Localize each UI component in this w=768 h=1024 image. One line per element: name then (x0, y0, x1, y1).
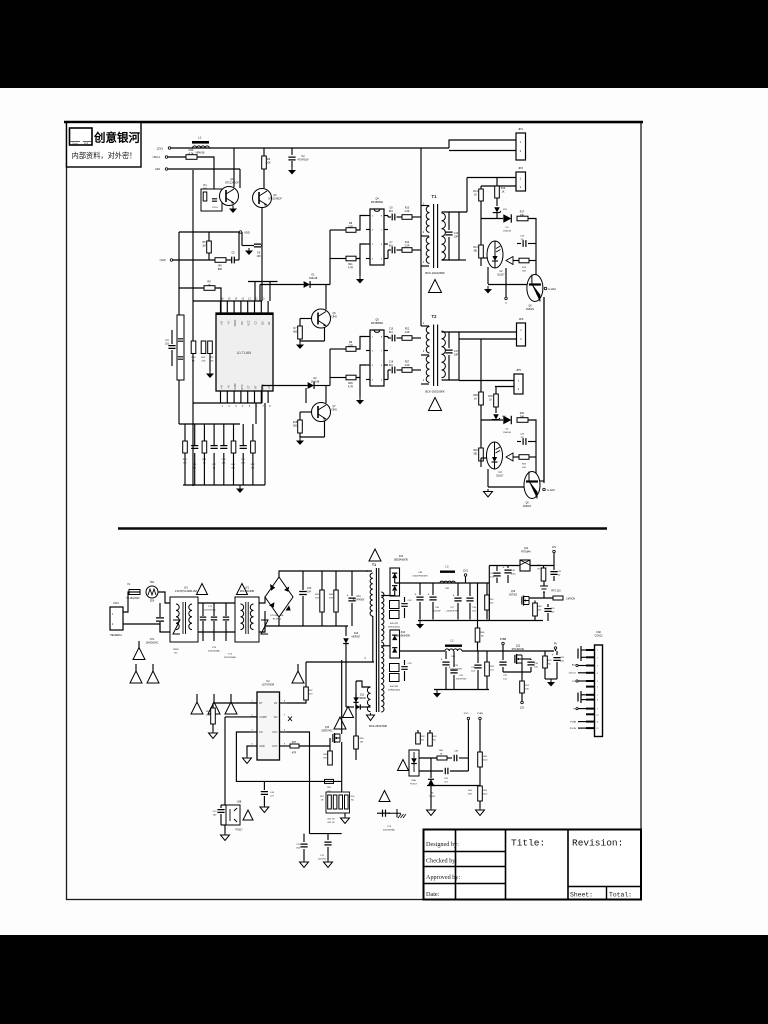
svg-text:R22: R22 (405, 329, 410, 331)
svg-text:C4 1U: C4 1U (212, 207, 219, 209)
ground C9 (248, 248, 250, 251)
svg-text:2.2R: 2.2R (405, 365, 410, 367)
svg-text:NC: NC (433, 740, 437, 742)
svg-text:D11: D11 (360, 695, 365, 697)
resistor R26 4.7R (346, 375, 356, 380)
wire rail1 (395, 582, 490, 584)
resistor R16 1K (496, 178, 498, 187)
wire T2 secondary top (442, 331, 517, 333)
svg-text:R14: R14 (473, 190, 478, 193)
resistor R50 2.2 (325, 779, 334, 783)
regulator Q14 RT9164A (520, 560, 530, 571)
svg-text:RT9164A: RT9164A (521, 551, 531, 554)
op-amp U2 LD7576GR (257, 692, 280, 760)
svg-text:10K: 10K (231, 468, 235, 470)
mosfet Q10 2N7002 (523, 596, 525, 606)
svg-text:R26: R26 (348, 382, 353, 385)
wire D13 in (381, 645, 390, 647)
svg-text:PR06M: PR06M (358, 698, 366, 700)
svg-text:U3A: U3A (411, 779, 416, 782)
zener ZD1 (496, 198, 498, 206)
resistor R46 NC (477, 583, 479, 628)
connector CN2 CON12 (595, 645, 603, 737)
svg-text:RT0 103: RT0 103 (551, 590, 561, 593)
capacitor C32 470UF/16V (453, 651, 455, 667)
svg-text:(61)2: (61)2 (483, 760, 489, 762)
svg-text:5D9: 5D9 (150, 601, 155, 603)
svg-text:EL817: EL817 (497, 475, 505, 478)
capacitor C40 1000UF/25V (432, 583, 434, 595)
wire ADJ (168, 168, 240, 170)
svg-text:1N4148: 1N4148 (309, 277, 318, 280)
svg-text:47UF/16V: 47UF/16V (297, 159, 309, 162)
capacitor C29 (556, 651, 558, 655)
optocoupler U4 EL817 (487, 442, 503, 469)
svg-text:C20: C20 (307, 588, 312, 590)
wedge phototransistor T2 (506, 453, 513, 461)
resistor R5 1M (208, 232, 210, 241)
diode D4 (503, 416, 511, 424)
svg-text:BCK-19G1090K: BCK-19G1090K (425, 271, 444, 275)
wire aux down (345, 662, 347, 707)
wire bus3 (434, 689, 489, 691)
svg-text:+: + (453, 594, 455, 598)
section divider line (118, 527, 607, 530)
wire Q5 input pins (330, 348, 346, 350)
resistor R30 4.7K (186, 155, 197, 160)
svg-text:Q13: Q13 (325, 727, 330, 729)
capacitor C20 (302, 571, 304, 590)
svg-text:1000UF/25V(P): 1000UF/25V(P) (412, 576, 427, 578)
svg-text:PSON: PSON (570, 728, 577, 730)
wire Q6a collector (325, 285, 327, 310)
svg-text:内部资料，对外密！: 内部资料，对外密！ (72, 151, 137, 160)
capacitor C49 100UF (507, 566, 509, 569)
svg-text:E2: E2 (260, 321, 264, 325)
svg-text:62K: 62K (468, 794, 472, 796)
svg-text:+1000UF/10V: +1000UF/10V (446, 611, 459, 613)
node VDD (239, 231, 242, 234)
ground under Q4 (359, 276, 361, 279)
svg-text:12V: 12V (520, 707, 525, 710)
resistor R47 NC (543, 566, 545, 569)
resistor R19 13K (184, 424, 186, 441)
zener ZD2 (495, 407, 497, 413)
wire Q4 lower output (397, 249, 403, 251)
svg-text:1000UF: 1000UF (433, 611, 441, 613)
wire Q12 loop (503, 671, 531, 673)
capacitor C76 220 (547, 604, 549, 607)
svg-text:C16: C16 (389, 362, 394, 364)
wedge phototransistor T1 (506, 257, 513, 265)
wire RC row bottom bus (183, 484, 265, 486)
warning triangle U3B (243, 810, 253, 820)
svg-text:OUT: OUT (272, 744, 278, 748)
capacitor C46 1U (553, 566, 555, 571)
ground under C2 (291, 167, 293, 170)
svg-text:51K: 51K (202, 361, 206, 363)
svg-text:10R: 10R (206, 715, 210, 717)
svg-text:R47: R47 (292, 741, 297, 744)
snubber R42 R43 (390, 601, 400, 609)
transistor Q7 (312, 403, 331, 422)
varistor Z2 (261, 620, 268, 634)
svg-text:1K: 1K (502, 191, 505, 194)
svg-text:HEADER-2: HEADER-2 (110, 634, 122, 637)
svg-text:PC817: PC817 (410, 784, 417, 786)
node 12V1 fb (467, 717, 470, 720)
resistor R13 681 (480, 219, 482, 246)
svg-text:T1: T1 (372, 563, 376, 567)
capacitor C27 1000UF/10V (457, 583, 459, 596)
optocoupler U3A PC817 (409, 750, 419, 776)
shunt U6 TL431 (430, 758, 432, 778)
svg-text:R18: R18 (293, 422, 298, 424)
svg-text:R52 1R: R52 1R (328, 819, 335, 821)
svg-text:COMP: COMP (233, 383, 237, 391)
svg-text:FDS8958A: FDS8958A (371, 322, 384, 325)
wire Q1 collector (233, 148, 235, 187)
resistor R62 (479, 720, 481, 752)
wire COMP feedback drop (224, 717, 226, 805)
svg-text:1N4148: 1N4148 (311, 381, 320, 384)
ground under Q1 (232, 206, 234, 209)
resistor R31 24K (517, 418, 528, 423)
wire LF2 out (259, 583, 279, 603)
resistor R30b 1K (495, 387, 497, 395)
svg-text:C945: C945 (331, 410, 337, 412)
resistor R12 2.2R (402, 248, 412, 253)
ground C12b (327, 860, 329, 862)
transistor Q5 FDS8958A (370, 330, 384, 386)
svg-text:ADJ: ADJ (572, 663, 576, 666)
svg-text:4.7R: 4.7R (348, 267, 353, 270)
svg-text:+: + (347, 594, 349, 598)
svg-text:222/250VAC: 222/250VAC (383, 829, 396, 832)
svg-text:T1: T1 (432, 194, 438, 199)
svg-text:1K: 1K (207, 284, 210, 287)
wire left bus (192, 170, 194, 486)
svg-text:JP4: JP4 (519, 317, 524, 321)
capacitor C21 47UF/450V (351, 571, 353, 596)
wire Q7 collector (325, 386, 327, 404)
svg-text:2.2R: 2.2R (405, 332, 410, 334)
wire 1LP (173, 259, 215, 261)
connector CN1 (110, 607, 123, 630)
capacitor C34 1000UF/10V (445, 651, 447, 659)
svg-text:U3B: U3B (237, 802, 242, 804)
svg-text:12V: 12V (552, 546, 557, 549)
svg-text:13K: 13K (183, 463, 187, 465)
svg-text:ZNR1: ZNR1 (173, 649, 179, 651)
svg-text:Date:: Date: (426, 891, 440, 898)
svg-text:1N4148: 1N4148 (503, 231, 511, 233)
mosfet Q12 STN4NF06L (516, 654, 518, 664)
wire VCC loop (287, 732, 310, 746)
svg-text:NC: NC (192, 361, 196, 363)
svg-text:Revision:: Revision: (572, 838, 623, 849)
wire right drop 2 (543, 297, 545, 481)
svg-text:DTC: DTC (240, 384, 244, 389)
wire center bus (420, 148, 422, 326)
resistor R10a 1K (204, 286, 215, 291)
node 12V2 term (521, 701, 524, 704)
U1 bottom pin stubs (220, 391, 222, 403)
svg-text:CS: CS (259, 730, 263, 734)
svg-text:24K: 24K (520, 416, 525, 419)
wire bottom left bus (265, 625, 348, 627)
svg-text:LD7576GR: LD7576GR (262, 684, 275, 687)
capacitor CY5 222/250VAC (377, 812, 390, 814)
capacitor C45 94 (419, 770, 443, 772)
resistor R59 NC (429, 730, 431, 733)
resistor R3 10K (263, 148, 265, 156)
svg-text:+: + (449, 666, 451, 670)
U1 top pin stubs (220, 301, 222, 313)
svg-text:VCC: VCC (272, 730, 278, 734)
svg-text:Title:: Title: (511, 838, 545, 849)
capacitor C44 271 (263, 781, 265, 790)
transistor Q1 (220, 187, 239, 206)
optocoupler U3B PC817 (226, 805, 240, 825)
resistor R10 2.2R (402, 215, 412, 220)
svg-text:Designed by:: Designed by: (426, 841, 459, 848)
svg-text:BCK-26107908: BCK-26107908 (369, 724, 387, 728)
svg-text:L1: L1 (198, 136, 202, 140)
diode D10 HER107 (345, 626, 347, 636)
capacitor C5 (232, 257, 235, 264)
wire reg top (489, 565, 520, 567)
varistor ZNR1 (173, 620, 180, 634)
capacitor C33 100 (530, 659, 532, 660)
warning triangle CY5 (379, 791, 390, 802)
capacitor C43 (404, 660, 406, 665)
resistor R45 222 (486, 583, 488, 595)
svg-text:1M: 1M (202, 245, 205, 248)
svg-text:RT: RT (254, 385, 258, 389)
svg-text:10P: 10P (454, 236, 459, 239)
resistor R27 2.2R (402, 368, 412, 373)
svg-text:R53 1R: R53 1R (328, 822, 335, 824)
node 12V1 out (464, 574, 467, 577)
op-amp U1 TL494 (216, 313, 273, 391)
svg-text:SBD540(60F): SBD540(60F) (394, 560, 408, 562)
capacitor C39 104 (496, 566, 498, 572)
svg-text:10K: 10K (538, 610, 542, 612)
resistor R14 1K (480, 186, 482, 189)
svg-text:2N7002: 2N7002 (509, 595, 518, 597)
earth CY5 (388, 809, 401, 818)
ground R63 (479, 808, 481, 810)
svg-text:BCK-19G1090K: BCK-19G1090K (425, 390, 444, 394)
capacitor C9 103 (242, 245, 254, 247)
svg-text:96K: 96K (218, 268, 223, 271)
svg-text:1K: 1K (489, 399, 492, 402)
resistor R18 682 (298, 420, 303, 433)
capacitor C3 103 (168, 346, 175, 349)
wire T1 secondary bottom (442, 259, 460, 261)
wire D12 in (381, 595, 395, 597)
svg-text:+: + (552, 653, 554, 657)
wire R30 to Q1 (197, 157, 214, 189)
capacitor C10 (388, 337, 391, 339)
wire Q13 drain (341, 660, 343, 734)
svg-text:R31: R31 (520, 412, 525, 415)
diode D11 PR06M (355, 704, 360, 709)
node FVBB fb (479, 717, 482, 720)
svg-text:CX1: CX1 (150, 639, 155, 641)
svg-text:+: + (428, 593, 430, 597)
wire Q5 lower output (397, 369, 403, 371)
connector JP1 (516, 133, 526, 160)
svg-text:222/1KV: 222/1KV (318, 859, 327, 861)
logo mark (70, 128, 93, 145)
bias network box U3 (201, 189, 222, 211)
resistor R63 (479, 767, 481, 786)
ground T1 aux (370, 713, 372, 715)
svg-text:D10: D10 (354, 633, 359, 635)
diode D1 1N4148 (260, 284, 301, 286)
svg-text:222/250VAC: 222/250VAC (224, 656, 237, 659)
resistor R60 4K (419, 757, 437, 759)
svg-text:1K: 1K (474, 194, 477, 197)
svg-text:+: + (441, 658, 443, 662)
wire Q4 gate join (356, 216, 366, 231)
resistor R17 24K (517, 216, 528, 221)
svg-text:PC817: PC817 (235, 830, 243, 832)
ground sense (344, 813, 346, 816)
wire Q2 emitter column (261, 232, 263, 301)
svg-text:+VI: +VI (220, 385, 224, 389)
ground C29 (545, 678, 557, 680)
wire Q5 gate join (356, 337, 366, 350)
svg-text:JP2: JP2 (518, 166, 523, 170)
wire LF1-LF2 (198, 602, 235, 604)
svg-text:E1: E1 (267, 321, 271, 325)
svg-text:VDD: VDD (244, 231, 250, 235)
svg-text:SSR2740C: SSR2740C (321, 731, 333, 733)
transistor Q2 (253, 189, 272, 208)
svg-text:10K: 10K (203, 189, 208, 191)
svg-text:12V1: 12V1 (156, 147, 163, 151)
wire Q10 drain (529, 597, 553, 599)
capacitor C12 1N (213, 424, 215, 441)
capacitor C8 61U (388, 216, 391, 218)
svg-text:EL817: EL817 (498, 274, 506, 277)
resistor R9 10R (346, 347, 356, 352)
svg-text:GND: GND (259, 744, 265, 748)
ground R56 (212, 731, 214, 733)
capacitor C30 104 (469, 583, 471, 596)
wire opto T1 (480, 258, 482, 266)
warning triangle LF2 (237, 584, 248, 595)
resistor R29 681 (480, 420, 482, 448)
wire pin comb (248, 281, 278, 283)
svg-text:10P: 10P (454, 354, 459, 357)
svg-text:47R: 47R (292, 752, 297, 755)
capacitor CX2 224 (213, 603, 215, 616)
svg-text:NC: NC (537, 569, 541, 571)
inductor L1 (192, 141, 209, 144)
capacitor C11 1N (194, 424, 196, 441)
svg-text:U5A-1: U5A-1 (153, 155, 161, 159)
CN2 net flags (578, 646, 581, 661)
svg-text:R43 (61)30X: R43 (61)30X (388, 627, 400, 629)
wire zener row 2 (481, 419, 503, 421)
wire Q7 emitter (324, 421, 326, 437)
ground TL431 (430, 808, 432, 810)
resistor R13a (208, 341, 213, 354)
svg-text:FVBB: FVBB (570, 722, 576, 724)
wire CS loop (236, 732, 309, 781)
wire driver column 2b (329, 378, 331, 386)
svg-text:NC: NC (274, 715, 278, 719)
svg-text:10R: 10R (348, 345, 353, 348)
svg-text:ADJ: ADJ (155, 167, 161, 171)
svg-text:R17: R17 (520, 211, 525, 214)
capacitor C48 (447, 757, 452, 759)
svg-text:222/250VAC: 222/250VAC (204, 609, 217, 612)
ground main (239, 485, 241, 489)
capacitor C15 103 (242, 424, 244, 441)
capacitor C35 104 (477, 651, 479, 663)
capacitor C14 10P (448, 212, 450, 230)
wire Q7 base (300, 411, 312, 413)
svg-text:104/250VAC: 104/250VAC (146, 642, 159, 645)
diode D12 SBD540 (390, 568, 400, 596)
capacitor C38 1000UF/25V (419, 583, 421, 595)
svg-text:R30: R30 (189, 148, 194, 152)
resistor R58 (417, 730, 419, 733)
svg-text:61U: 61U (389, 211, 394, 213)
resistor R40 (335, 571, 337, 590)
connector JP5 (514, 374, 523, 394)
svg-text:13K: 13K (251, 468, 255, 470)
svg-text:R27: R27 (405, 362, 410, 364)
svg-text:FVBB: FVBB (477, 713, 483, 715)
svg-text:12V1: 12V1 (463, 570, 469, 573)
wire JP2 feeds (467, 177, 516, 179)
ground U3B (224, 833, 226, 835)
svg-text:R30: R30 (488, 395, 493, 398)
svg-text:2.2R: 2.2R (405, 211, 410, 213)
wire driver column 2 (329, 349, 331, 378)
wire bus2 (418, 620, 543, 622)
wire U1 bottom bus (179, 423, 240, 425)
resistor R22b 2.2R (402, 336, 412, 341)
node FVBB term (502, 642, 505, 645)
svg-text:NC: NC (174, 653, 178, 655)
svg-text:10K: 10K (522, 467, 526, 469)
warning triangle above T1 (369, 549, 381, 561)
wire reg out (530, 565, 554, 567)
diode D13 SBD340 (390, 630, 400, 658)
inductor L2 (445, 645, 462, 647)
svg-text:CN1: CN1 (113, 601, 119, 605)
wire U1 top bus (193, 300, 262, 302)
transistor Q4 FDS8958A (370, 209, 384, 265)
node 1L terminal (505, 268, 507, 297)
wire Q2 emitter down (261, 208, 263, 232)
svg-text:+: + (415, 593, 417, 597)
capacitor C7 (388, 249, 391, 251)
wire opto T2 (480, 458, 482, 467)
mosfet Q13 SSR2N40C (334, 733, 336, 743)
connector JP4 (517, 323, 526, 346)
svg-text:JP5: JP5 (516, 368, 521, 372)
svg-text:1.5mH(TCL404B-152): 1.5mH(TCL404B-152) (175, 591, 198, 593)
ground under opto T2 (487, 489, 489, 492)
